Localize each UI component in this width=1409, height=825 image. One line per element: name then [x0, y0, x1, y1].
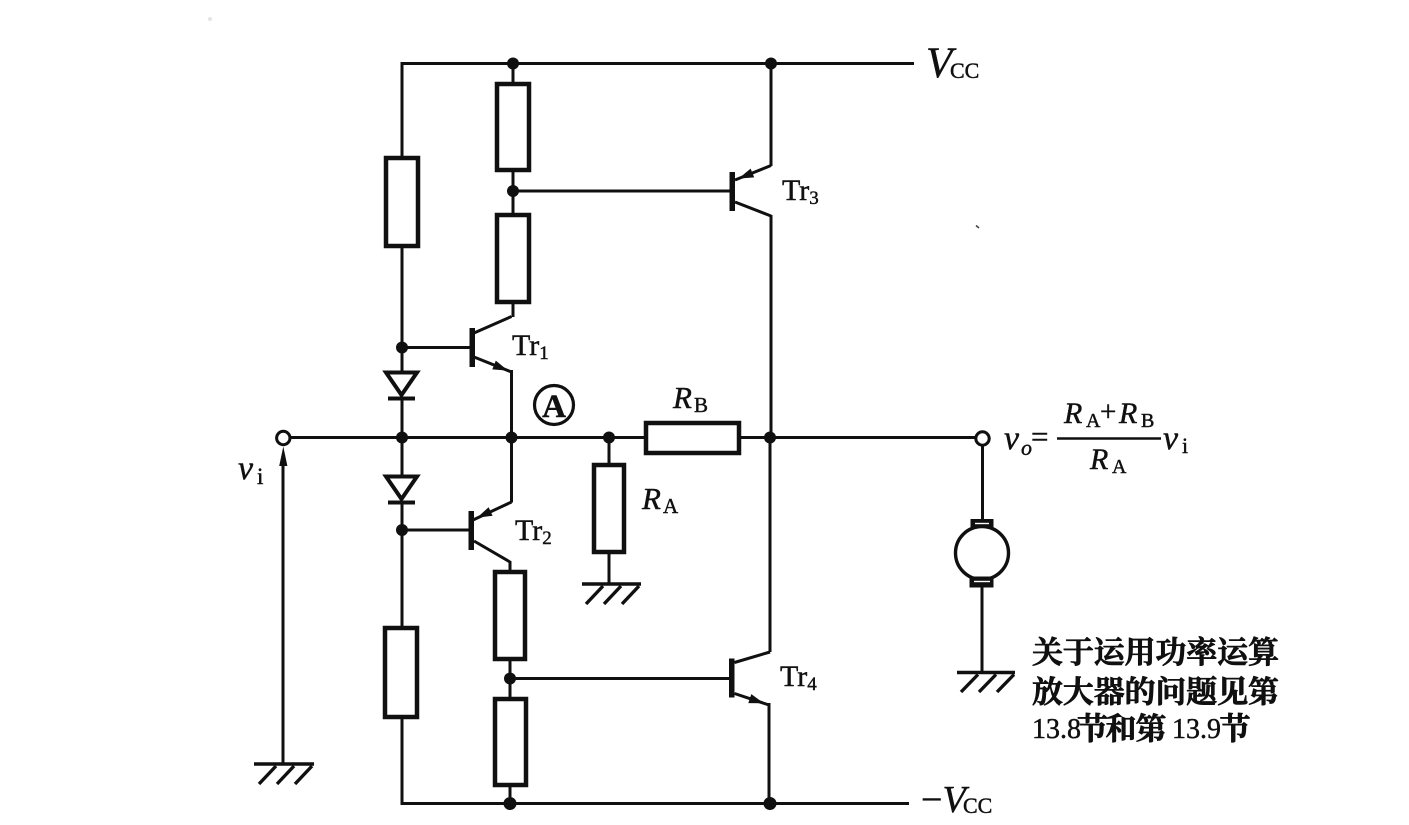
svg-text:i: i	[1182, 433, 1188, 458]
resistor RA	[594, 465, 624, 552]
svg-text:A: A	[663, 494, 679, 518]
wire middle column rail to R1	[512, 62, 515, 84]
wire Tr3 collector down to output node	[770, 215, 773, 438]
svg-text:Tr4: Tr4	[780, 660, 817, 695]
svg-text:R: R	[1063, 397, 1082, 430]
resistor left-top (unlabeled)	[386, 158, 418, 246]
node A circle	[535, 386, 574, 425]
wire Tr3 base	[513, 190, 730, 193]
svg-text:i: i	[257, 464, 263, 489]
wire below R4	[509, 785, 512, 805]
resistor mid-third below Tr2 (unlabeled)	[495, 572, 525, 659]
transistor Tr3	[730, 166, 772, 217]
wire below R3	[509, 659, 512, 699]
svg-text:Tr1: Tr1	[512, 329, 549, 364]
svg-text:+: +	[1100, 396, 1116, 428]
junction node A wire / main wire	[506, 432, 518, 444]
wire input terminal stem	[282, 463, 285, 764]
wire top rail VCC	[402, 62, 914, 65]
wire diode D1 to D2 through input node	[401, 399, 404, 477]
wire RA top lead	[608, 438, 611, 466]
svg-text:Tr3: Tr3	[782, 174, 819, 209]
junction input wire / left branch	[396, 432, 408, 444]
svg-text:R: R	[641, 481, 661, 516]
svg-text:CC: CC	[950, 58, 979, 83]
ground under RA	[582, 584, 641, 604]
resistor left-bottom (unlabeled)	[385, 628, 417, 717]
junction top rail / Tr3 column	[765, 58, 777, 70]
ground under motor	[957, 673, 1015, 693]
wire Tr2 collector to resistor	[509, 561, 512, 572]
svg-text:B: B	[694, 393, 708, 417]
junction top rail / middle column	[507, 58, 519, 70]
wire left branch top	[401, 62, 404, 158]
svg-text:v: v	[1004, 420, 1020, 457]
wire input horizontal	[290, 436, 646, 439]
wire motor top lead	[981, 445, 984, 520]
svg-text:A: A	[1112, 456, 1127, 478]
wire motor bottom lead	[981, 587, 984, 673]
resistor mid-fourth (unlabeled)	[495, 699, 526, 785]
output terminal	[976, 432, 989, 445]
transistor Tr1	[402, 317, 512, 373]
wire output node down to Tr4 collector	[769, 438, 772, 653]
junction RA / main wire	[603, 432, 615, 444]
svg-text:13.9: 13.9	[1172, 714, 1221, 745]
svg-text:A: A	[542, 389, 566, 425]
wire left branch resistor to diode D1	[401, 246, 404, 373]
svg-text:13.8: 13.8	[1032, 714, 1081, 745]
transistor Tr2	[402, 502, 512, 562]
junction Tr3 base wire / middle column	[507, 185, 519, 197]
diode D1	[386, 373, 417, 399]
formula vo = (RA+RB)/RA vi	[1004, 396, 1188, 478]
svg-text:R: R	[1118, 397, 1137, 430]
input arrow head	[279, 447, 287, 467]
svg-text:CC: CC	[963, 793, 992, 818]
wire Tr1 emitter to node A	[510, 370, 513, 503]
svg-text:A: A	[1086, 410, 1101, 432]
diode D2	[386, 477, 417, 503]
motor M	[956, 519, 1009, 588]
resistor RB (horizontal)	[646, 423, 739, 453]
svg-text:R: R	[672, 380, 692, 415]
svg-text:v: v	[238, 450, 254, 487]
wire R1 to R2 through Tr3-base node	[512, 170, 515, 215]
wire output horizontal	[739, 436, 976, 439]
junction bottom rail / middle column	[504, 797, 517, 810]
junction RB / output column	[764, 432, 776, 444]
svg-text:Tr2: Tr2	[515, 514, 552, 549]
junction bottom rail / Tr4 emitter	[764, 797, 777, 810]
resistor mid-top (unlabeled)	[497, 84, 529, 170]
svg-text:R: R	[1089, 443, 1108, 476]
junction Tr4 base wire / middle column	[504, 673, 516, 685]
input terminal	[277, 431, 290, 444]
svg-text:v: v	[1163, 420, 1179, 457]
ground under vi	[254, 764, 314, 784]
wire R2 to Tr1 collector	[512, 302, 515, 317]
scan specks	[208, 17, 212, 21]
wire left branch bottom	[401, 717, 404, 805]
svg-text:B: B	[1141, 410, 1154, 432]
wire right column top	[770, 62, 773, 166]
wire bottom rail -VCC	[402, 802, 909, 805]
resistor mid-second (unlabeled)	[497, 215, 529, 302]
wire RA bottom lead	[608, 552, 611, 584]
wire diode D2 to lower resistor	[401, 503, 404, 628]
wire Tr4 emitter down to rail	[768, 703, 771, 805]
wire Tr4 base	[510, 677, 729, 680]
svg-text:=: =	[1031, 419, 1048, 454]
transistor Tr4	[729, 652, 770, 705]
junction Tr1 base / left branch	[396, 342, 408, 354]
junction Tr2 base / left branch	[396, 524, 408, 536]
